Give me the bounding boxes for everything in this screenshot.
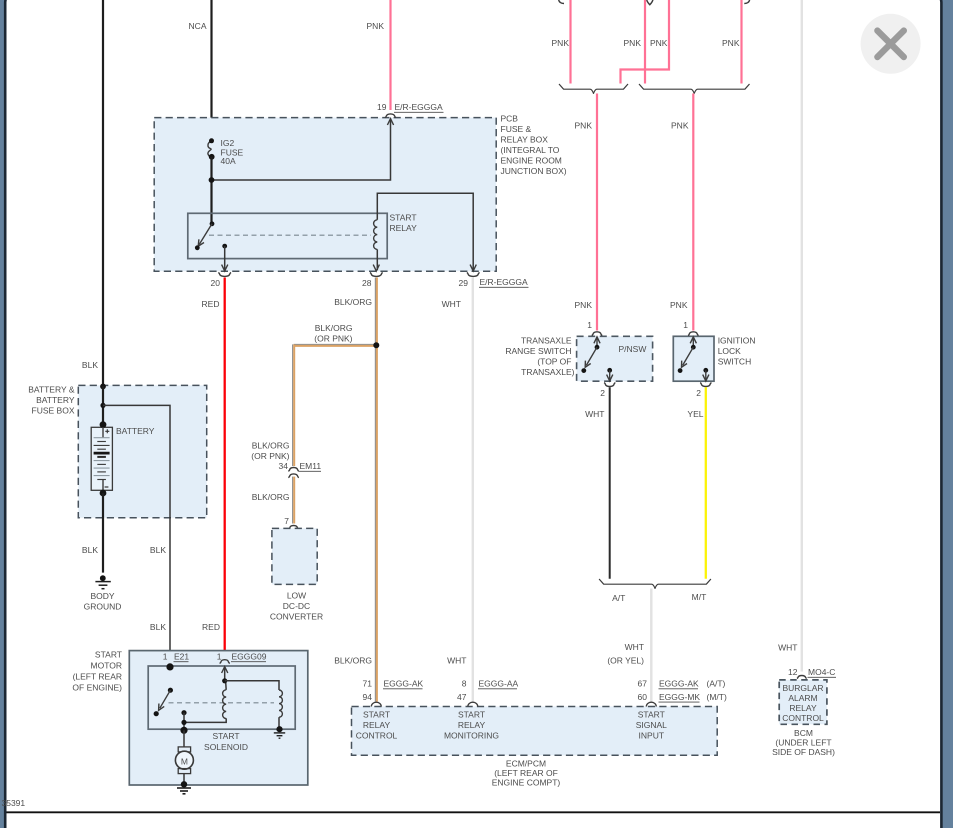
fuse IG2 40A bbox=[208, 141, 212, 157]
svg-text:BATTERY: BATTERY bbox=[116, 426, 155, 436]
connector arc ignition pin1 bbox=[688, 332, 699, 336]
junction dot BLK/ORG bbox=[373, 342, 379, 348]
svg-text:67: 67 bbox=[638, 679, 648, 689]
svg-text:PNK: PNK bbox=[575, 121, 593, 131]
svg-text:1: 1 bbox=[683, 320, 688, 330]
wire coil bottom to pin 28 bbox=[376, 249, 378, 270]
wire hold coil to ground bbox=[278, 717, 280, 729]
start motor box bbox=[129, 651, 307, 785]
start relay box bbox=[188, 213, 387, 258]
wire junction to motor bbox=[183, 730, 185, 747]
wire EGGG09 to solenoid node bbox=[224, 667, 226, 681]
svg-text:EGGG-AK: EGGG-AK bbox=[384, 679, 424, 689]
svg-text:A/T: A/T bbox=[612, 593, 625, 603]
svg-text:EGGG-MK: EGGG-MK bbox=[659, 692, 700, 702]
arrow down pin 29 bbox=[470, 265, 476, 271]
svg-text:PNK: PNK bbox=[650, 38, 668, 48]
connector arc transaxle pin2 bbox=[604, 383, 615, 387]
relay coil bbox=[374, 220, 378, 250]
svg-text:BLK/ORG: BLK/ORG bbox=[334, 656, 372, 666]
svg-text:M/T: M/T bbox=[692, 592, 707, 602]
svg-text:E21: E21 bbox=[174, 652, 189, 662]
wire coil to contact node bbox=[184, 718, 226, 722]
svg-text:(A/T): (A/T) bbox=[707, 679, 726, 689]
wire pin19 to fuse junction bbox=[212, 119, 391, 180]
wire RED relay to start motor bbox=[224, 278, 226, 660]
solenoid ground bbox=[276, 726, 282, 732]
wire BLK/ORG branch down to EM11 bbox=[292, 344, 294, 466]
svg-text:P/NSW: P/NSW bbox=[619, 344, 647, 354]
svg-text:94: 94 bbox=[363, 692, 373, 702]
connector MO4-C bbox=[797, 676, 807, 679]
relay dashed link bbox=[209, 234, 371, 236]
ECM/PCM box bbox=[352, 707, 718, 756]
solenoid hold-in coil bbox=[279, 690, 282, 717]
connector arc ignition pin2 bbox=[700, 383, 711, 387]
junction dot solenoid out bbox=[181, 720, 186, 725]
svg-text:2: 2 bbox=[600, 388, 605, 398]
svg-text:7: 7 bbox=[284, 516, 289, 526]
svg-text:1: 1 bbox=[587, 320, 592, 330]
arrow down pin 20 bbox=[222, 265, 228, 271]
wire branch to start motor bbox=[103, 405, 170, 667]
svg-text:PNK: PNK bbox=[670, 300, 688, 310]
battery symbol bbox=[91, 427, 112, 490]
connector arc transaxle pin1 bbox=[592, 332, 603, 336]
connector bump pin 71/94 bbox=[371, 702, 381, 706]
wire PNK to pin 19 bbox=[389, 0, 391, 110]
arrow up EGGG09 bbox=[222, 667, 228, 673]
bottom rule line bbox=[7, 811, 941, 813]
svg-text:(M/T): (M/T) bbox=[707, 692, 727, 702]
svg-text:WHT: WHT bbox=[778, 643, 797, 653]
motor M bbox=[178, 747, 190, 752]
svg-text:MO4-C: MO4-C bbox=[808, 667, 835, 677]
svg-text:1: 1 bbox=[217, 652, 222, 662]
arrow down pin 28 bbox=[373, 265, 379, 271]
connector bump pin 8/47 bbox=[468, 702, 478, 706]
junction dot fuse-pin19 bbox=[209, 177, 215, 183]
svg-text:PNK: PNK bbox=[624, 38, 642, 48]
wire PNK 2 (top) bbox=[644, 0, 646, 84]
svg-text:34: 34 bbox=[279, 461, 289, 471]
svg-text:PNK: PNK bbox=[367, 21, 385, 31]
svg-text:19: 19 bbox=[377, 102, 387, 112]
dot inner box edge bbox=[180, 727, 187, 734]
connector arc pin 28 bbox=[370, 273, 383, 277]
body ground bbox=[100, 575, 106, 581]
ignition contact pin2 bbox=[703, 368, 708, 373]
brace A/T M/T bbox=[599, 579, 711, 588]
cut-off brace tip (top edge) bbox=[559, 0, 750, 5]
arrow up pin 19 bbox=[387, 119, 393, 125]
wire WHT relay to ECM bbox=[472, 278, 474, 703]
arrow up transaxle pin1 bbox=[594, 337, 600, 343]
connector arc pin 19 bbox=[385, 114, 396, 118]
svg-text:PNK: PNK bbox=[552, 38, 570, 48]
brace group 1 bbox=[559, 84, 628, 93]
solenoid dashed link bbox=[169, 702, 275, 704]
svg-text:BLK: BLK bbox=[82, 360, 98, 370]
svg-text:YEL: YEL bbox=[687, 409, 703, 419]
svg-text:E/R-EGGGA: E/R-EGGGA bbox=[480, 277, 529, 287]
motor switch bbox=[168, 688, 173, 693]
wire coil top to pin 29 bbox=[377, 193, 473, 270]
relay contact for pin 20 bbox=[222, 244, 227, 249]
wire EM11 to converter bbox=[292, 477, 294, 524]
svg-text:M: M bbox=[181, 757, 188, 767]
svg-text:BLK/ORG: BLK/ORG bbox=[252, 492, 290, 502]
svg-text:EGGG09: EGGG09 bbox=[232, 652, 267, 662]
wire PNK 4 (top) bbox=[740, 0, 742, 84]
svg-text:BLK/ORG(OR PNK): BLK/ORG(OR PNK) bbox=[251, 441, 289, 462]
connector EGGG09 bbox=[220, 660, 230, 664]
wire fuse to relay bbox=[210, 157, 212, 224]
svg-text:NCA: NCA bbox=[189, 21, 207, 31]
wire battery top bbox=[102, 386, 104, 425]
burglar alarm relay control box bbox=[779, 680, 827, 724]
svg-text:2: 2 bbox=[696, 388, 701, 398]
svg-text:1: 1 bbox=[163, 652, 168, 662]
svg-text:BLK: BLK bbox=[150, 545, 166, 555]
svg-text:WHT: WHT bbox=[585, 409, 604, 419]
ignition lock switch box bbox=[673, 336, 714, 381]
svg-text:47: 47 bbox=[457, 692, 467, 702]
wire PNK 1 (top) bbox=[569, 0, 571, 84]
svg-text:12: 12 bbox=[788, 667, 798, 677]
wire WHT transaxle down bbox=[609, 387, 611, 579]
svg-text:BLK/ORG(OR PNK): BLK/ORG(OR PNK) bbox=[314, 323, 352, 344]
svg-text:PNK: PNK bbox=[575, 300, 593, 310]
wire contact to junction bbox=[183, 713, 185, 731]
svg-text:35391: 35391 bbox=[2, 798, 26, 808]
svg-text:PNK: PNK bbox=[671, 121, 689, 131]
svg-text:RED: RED bbox=[202, 299, 220, 309]
svg-text:8: 8 bbox=[462, 679, 467, 689]
svg-text:29: 29 bbox=[459, 278, 469, 288]
transaxle contact pin2 bbox=[607, 368, 612, 373]
connector bump pin 67/60 bbox=[646, 702, 656, 706]
wire node to right coil bbox=[225, 681, 279, 690]
dot E21 bbox=[166, 663, 173, 670]
junction dot box edge bbox=[100, 384, 106, 390]
wire WHT brace to ECM bbox=[650, 589, 652, 703]
connector arc pin 29 bbox=[467, 273, 480, 277]
transaxle range switch box bbox=[577, 336, 653, 381]
brace group 2 bbox=[639, 84, 750, 93]
svg-text:BLK/ORG: BLK/ORG bbox=[334, 297, 372, 307]
svg-text:71: 71 bbox=[363, 679, 373, 689]
svg-text:BATTERY &BATTERYFUSE BOX: BATTERY &BATTERYFUSE BOX bbox=[28, 385, 75, 416]
wire BLK to battery (top segment) bbox=[102, 0, 104, 386]
connector EM11 bbox=[288, 468, 299, 472]
close button bbox=[861, 14, 921, 74]
wire PNK to transaxle range switch bbox=[596, 94, 598, 331]
wire BLK/ORG relay to ECM bbox=[374, 278, 376, 702]
motor ground bbox=[181, 781, 187, 787]
svg-text:BLK: BLK bbox=[82, 545, 98, 555]
svg-text:EM11: EM11 bbox=[300, 461, 322, 471]
battery fuse box bbox=[78, 385, 206, 517]
svg-text:28: 28 bbox=[362, 278, 372, 288]
motor contact dot bbox=[181, 710, 186, 715]
svg-text:WHT: WHT bbox=[442, 299, 461, 309]
connector arc pin 7 bbox=[289, 526, 299, 530]
svg-text:EGGG-AK: EGGG-AK bbox=[659, 679, 699, 689]
svg-text:BLK: BLK bbox=[150, 622, 166, 632]
svg-text:STARTSIGNALINPUT: STARTSIGNALINPUT bbox=[636, 710, 667, 741]
svg-text:RED: RED bbox=[202, 622, 220, 632]
svg-text:60: 60 bbox=[638, 692, 648, 702]
svg-text:E/R-EGGGA: E/R-EGGGA bbox=[395, 102, 444, 112]
wire motor to ground bbox=[183, 774, 185, 785]
solenoid pull-in coil bbox=[223, 690, 227, 719]
arrow up ignition pin1 bbox=[690, 337, 696, 343]
svg-text:EGGG-AA: EGGG-AA bbox=[479, 679, 519, 689]
node solenoid top bbox=[222, 678, 227, 683]
svg-text:20: 20 bbox=[211, 278, 221, 288]
ignition switch bbox=[692, 337, 694, 347]
PCB fuse & relay box bbox=[154, 118, 496, 272]
wire relay contact to pin 20 bbox=[224, 246, 226, 270]
wire battery to body ground bbox=[102, 493, 104, 573]
low dc-dc converter box bbox=[272, 528, 317, 584]
wire PNK 3 (bent) bbox=[621, 0, 670, 84]
svg-text:WHT: WHT bbox=[447, 656, 466, 666]
relay switch bbox=[210, 221, 215, 226]
wire PNK to ignition lock switch bbox=[692, 94, 694, 331]
wire YEL ignition down bbox=[705, 387, 707, 579]
svg-text:STARTRELAY: STARTRELAY bbox=[390, 213, 418, 234]
transaxle switch bbox=[596, 337, 598, 347]
junction dot branch bbox=[100, 403, 105, 408]
svg-text:PNK: PNK bbox=[722, 38, 740, 48]
wire NCA bbox=[210, 0, 212, 141]
wire BLK/ORG branch horizontal bbox=[294, 343, 377, 345]
connector arc pin 20 bbox=[218, 273, 231, 277]
start motor inner box bbox=[148, 666, 295, 729]
wire WHT to BCM bbox=[801, 0, 803, 672]
